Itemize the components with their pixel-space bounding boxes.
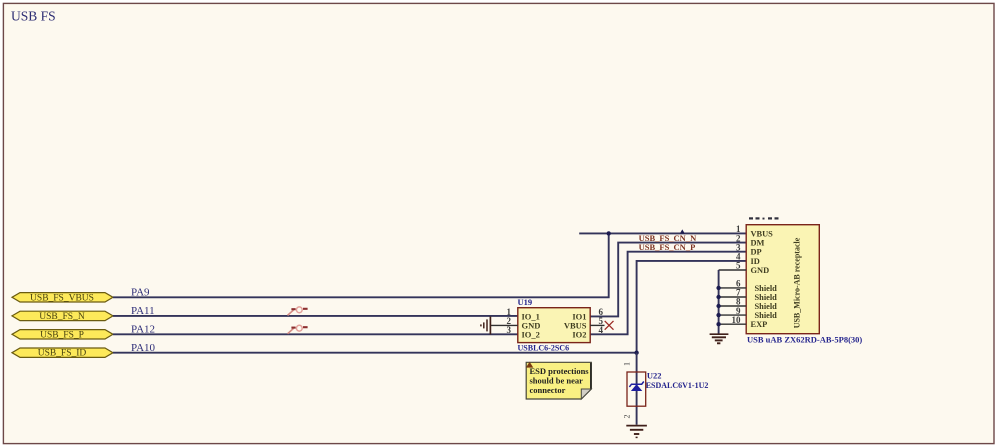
ground below U22 bbox=[626, 426, 647, 438]
svg-text:IO2: IO2 bbox=[572, 329, 586, 339]
junction on PA10 wire bbox=[634, 351, 638, 355]
wire ID vertical to connector pin 4 bbox=[637, 261, 747, 353]
svg-text:ESDALC6V1-1U2: ESDALC6V1-1U2 bbox=[646, 381, 709, 390]
svg-text:USB uAB ZX62RD-AB-5P8(30): USB uAB ZX62RD-AB-5P8(30) bbox=[747, 335, 862, 345]
svg-text:Shield: Shield bbox=[755, 302, 778, 311]
svg-text:VBUS: VBUS bbox=[751, 229, 774, 238]
svg-text:Shield: Shield bbox=[755, 311, 778, 320]
wire from PA10 junction down to U22 and ground bbox=[636, 353, 638, 425]
port USB_FS_VBUS bbox=[12, 293, 113, 304]
U22 TVS diode symbol bbox=[629, 382, 643, 392]
wire VBUS stub to connector pin 1 bbox=[579, 232, 746, 234]
marker triangle on VBUS wire bbox=[680, 229, 685, 233]
shield bus vertical wire bbox=[718, 270, 720, 334]
svg-text:IO_2: IO_2 bbox=[522, 329, 540, 339]
wire net USB_FS_CN_P (U19 pin4 to connector pin3) bbox=[590, 252, 746, 335]
svg-text:should be near: should be near bbox=[530, 375, 584, 385]
svg-text:PA12: PA12 bbox=[131, 324, 155, 336]
ground at U19 pin 2 (rotated) bbox=[481, 316, 491, 334]
svg-text:U19: U19 bbox=[518, 297, 533, 307]
svg-text:5: 5 bbox=[736, 261, 741, 271]
svg-text:USB_FS_VBUS: USB_FS_VBUS bbox=[30, 293, 94, 303]
ground below connector shield bus bbox=[710, 334, 729, 343]
differential pair marker on PA12 bbox=[288, 325, 308, 333]
U19 ESD protection IC bbox=[518, 297, 591, 353]
U19 pin 2 stub (GND) bbox=[491, 324, 518, 326]
connector pin names bbox=[751, 229, 778, 329]
connector designator (illegible dots) bbox=[749, 217, 779, 219]
svg-text:EXP: EXP bbox=[751, 320, 768, 329]
connector USB Micro-AB receptacle bbox=[746, 225, 862, 345]
svg-text:DM: DM bbox=[751, 239, 765, 248]
svg-text:USB FS: USB FS bbox=[11, 8, 56, 23]
port USB_FS_P bbox=[12, 330, 113, 341]
note: ESD protections should be near connector bbox=[526, 362, 591, 399]
svg-text:PA9: PA9 bbox=[131, 287, 150, 299]
svg-text:USB_Micro-AB receptacle: USB_Micro-AB receptacle bbox=[792, 237, 801, 328]
U19 pin numbers bbox=[507, 307, 604, 335]
svg-text:USBLC6-2SC6: USBLC6-2SC6 bbox=[518, 343, 570, 352]
U22 ESD diode bbox=[627, 371, 708, 407]
junction on VBUS wire bbox=[607, 231, 611, 235]
svg-text:4: 4 bbox=[599, 325, 604, 335]
wire PA12 net bbox=[113, 333, 518, 335]
differential pair marker on PA11 bbox=[288, 307, 308, 316]
svg-text:ESD protections: ESD protections bbox=[530, 366, 590, 376]
wire net USB_FS_CN_N (U19 pin6 to connector pin2) bbox=[590, 243, 746, 317]
U19 pin 5 stub (VBUS, not connected) bbox=[590, 324, 604, 326]
svg-text:1: 1 bbox=[623, 362, 632, 366]
U19 pin names bbox=[522, 311, 587, 339]
svg-text:Shield: Shield bbox=[755, 284, 778, 293]
port USB_FS_N bbox=[12, 311, 113, 322]
svg-text:U22: U22 bbox=[647, 371, 662, 381]
svg-text:USB_FS_CN_P: USB_FS_CN_P bbox=[639, 242, 696, 252]
svg-text:DP: DP bbox=[751, 248, 762, 257]
svg-text:PA10: PA10 bbox=[131, 342, 156, 354]
junctions on shield bus bbox=[716, 286, 720, 327]
no-connect X on U19 pin 5 bbox=[605, 321, 614, 330]
svg-text:USB_FS_ID: USB_FS_ID bbox=[38, 349, 87, 359]
svg-text:USB_FS_N: USB_FS_N bbox=[39, 312, 85, 322]
svg-text:2: 2 bbox=[623, 415, 632, 419]
wire PA9 net bbox=[113, 233, 609, 297]
svg-text:ID: ID bbox=[751, 257, 760, 266]
connector pin numbers bbox=[732, 224, 742, 325]
svg-text:10: 10 bbox=[732, 315, 742, 325]
svg-text:PA11: PA11 bbox=[131, 305, 155, 317]
port USB_FS_ID bbox=[12, 348, 113, 359]
svg-text:GND: GND bbox=[751, 266, 770, 275]
wire PA11 net bbox=[113, 315, 518, 317]
svg-text:3: 3 bbox=[507, 325, 512, 335]
svg-text:USB_FS_P: USB_FS_P bbox=[40, 330, 84, 340]
svg-text:Shield: Shield bbox=[755, 293, 778, 302]
svg-text:connector: connector bbox=[530, 385, 566, 395]
connector shield bus pin stubs bbox=[719, 288, 747, 324]
connector pin stubs 1-5 bbox=[719, 269, 747, 271]
wire PA10 net bbox=[113, 352, 637, 354]
